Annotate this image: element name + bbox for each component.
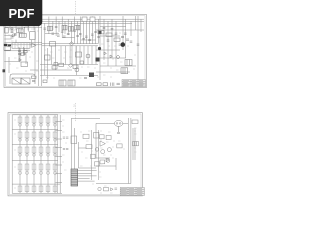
- filter box FB1: [4, 47, 11, 50]
- relay K2: [133, 142, 139, 146]
- wire grid column 1: [19, 115, 21, 194]
- title block page 1 text lines: [123, 81, 143, 86]
- wire vertical V33: [122, 16, 124, 50]
- resistor R2 hatch: [19, 29, 21, 33]
- sheet border page 2 outer: [8, 113, 142, 196]
- resistor R11: [106, 33, 112, 36]
- wire vertical V15: [80, 17, 82, 44]
- wire mid vertical M2: [59, 115, 61, 193]
- wire vertical V9: [61, 17, 63, 39]
- resistor R7: [59, 63, 64, 66]
- wire left block links: [5, 36, 39, 71]
- wire vertical V1: [38, 16, 40, 86]
- wire oval stub: [118, 126, 120, 132]
- capacitor C16: [55, 27, 58, 28]
- wire left block verticals: [9, 25, 32, 73]
- resistor bank RB4: [75, 25, 80, 30]
- wire right rail h2: [96, 49, 120, 51]
- transistor Q2: [75, 68, 79, 72]
- wire vertical V6: [52, 21, 54, 30]
- wire right rail h1: [96, 29, 144, 31]
- transistor Q4 dark: [98, 47, 101, 50]
- relay K4: [71, 136, 77, 144]
- op-amp U10: [100, 141, 105, 146]
- resistor R9: [45, 55, 51, 60]
- junction dot J: [24, 27, 25, 28]
- wire vertical V18: [89, 21, 91, 43]
- wire right vertical R3: [132, 128, 134, 160]
- wire vertical V13: [74, 17, 76, 44]
- wire vertical V34: [124, 19, 126, 58]
- capacitor C32: [97, 37, 100, 38]
- diode D5 diamond: [69, 63, 73, 67]
- resistor bank RB2 hatch: [64, 25, 66, 30]
- bridge rectifier D1 dark: [4, 44, 7, 46]
- resistor bank RB1 hatch: [49, 26, 51, 31]
- wire vertical V29: [103, 19, 105, 60]
- capacitor C37: [119, 44, 122, 45]
- capacitor C15: [44, 28, 47, 29]
- wire vertical V31: [111, 19, 113, 58]
- transistor Q8: [11, 28, 13, 30]
- resistor R30: [83, 134, 89, 138]
- transformer T1 winding A: [12, 78, 21, 84]
- IC U7 wide box: [12, 43, 30, 48]
- capacitor C39: [130, 41, 133, 42]
- wire vertical V3: [34, 27, 36, 75]
- title block page 2: [120, 188, 144, 196]
- transistor bank row 3: [18, 147, 57, 156]
- resistor bank RB4 hatch: [77, 25, 79, 30]
- sheet border page 1 outer: [4, 15, 147, 88]
- wire grid column 5: [47, 115, 49, 194]
- wire vertical V2: [41, 16, 43, 86]
- wire vertical V10: [64, 21, 66, 34]
- relay K3 pins: [123, 68, 125, 74]
- fold mark page 1 top: [75, 1, 77, 15]
- wire vertical V35: [130, 21, 132, 36]
- connector J1 pins: [61, 80, 63, 86]
- wire bottom return: [96, 183, 131, 185]
- capacitor C13: [121, 37, 124, 38]
- connector CN1: [82, 17, 87, 22]
- transistor bank row 1: [18, 117, 57, 126]
- wire vertical V21: [50, 46, 52, 65]
- resistor R13: [73, 65, 78, 69]
- capacitor C20: [63, 137, 65, 138]
- capacitor C9: [79, 34, 82, 35]
- capacitor C3: [18, 54, 21, 55]
- wire vertical V19: [92, 17, 94, 44]
- wire vertical W4: [83, 46, 85, 64]
- wire vertical V24: [65, 46, 67, 65]
- connector CN2: [90, 17, 95, 22]
- capacitor C1: [11, 31, 14, 32]
- capacitor C35: [111, 29, 114, 30]
- connector J2: [68, 80, 75, 86]
- transistor Q3 dark: [121, 42, 126, 47]
- loudspeaker LS1 oval: [114, 120, 122, 126]
- resistor bank RB3: [69, 27, 74, 32]
- capacitor C8: [63, 36, 66, 37]
- wire vertical V17: [86, 19, 88, 44]
- fold mark page 2 top: [75, 103, 77, 122]
- resistor R3: [20, 33, 27, 37]
- wire top bus 3: [20, 22, 132, 24]
- capacitor C11: [91, 34, 94, 35]
- transistor Q10: [101, 150, 105, 154]
- capacitor C5: [32, 81, 35, 82]
- resistor R12: [114, 38, 120, 41]
- transistor Q12: [106, 159, 110, 163]
- resistor R31: [86, 145, 92, 149]
- resistor R32: [91, 154, 95, 159]
- sheet border page 2 inner: [9, 114, 141, 195]
- wire vertical V23: [60, 46, 62, 64]
- wire right rail h5: [96, 71, 130, 73]
- capacitor C27: [76, 36, 79, 37]
- capacitor C22: [63, 149, 65, 150]
- wire grid column 2: [26, 115, 28, 194]
- wire loop left: [78, 142, 96, 168]
- resistor R25: [100, 160, 105, 164]
- wire mid rail B: [42, 45, 98, 47]
- transformer T1 diagonals: [12, 78, 30, 84]
- wire cluster link: [96, 158, 116, 166]
- regulator U6: [80, 61, 84, 64]
- wire mid rail C: [40, 64, 98, 66]
- capacitor C2: [11, 37, 14, 38]
- capacitor C29: [88, 40, 91, 41]
- component value labels texture page 1: [8, 27, 136, 78]
- capacitor C23: [66, 149, 68, 150]
- wire grid bus 5: [12, 183, 60, 185]
- wire vertical V7: [55, 17, 57, 37]
- bridge rectifier D2 dark: [8, 44, 11, 46]
- wire mid ticks: [56, 122, 63, 183]
- connector J1: [59, 80, 66, 86]
- capacitor C41: [137, 44, 140, 45]
- transistor Q11: [107, 148, 111, 152]
- transistor Q7 dark: [99, 31, 102, 34]
- IC U5: [76, 52, 82, 57]
- wire mid vertical M1: [56, 115, 58, 193]
- transistor bank row 5: [18, 186, 57, 192]
- wire right vertical R2: [130, 118, 132, 184]
- wire mid vertical M4: [74, 128, 76, 169]
- wire grid column 3: [33, 115, 35, 194]
- PDF badge: [0, 0, 42, 26]
- diode D10: [106, 158, 109, 162]
- output transistor grid cells: [18, 117, 57, 192]
- wire oval riser: [95, 123, 97, 158]
- wire connector fan-out: [78, 171, 97, 181]
- wire vertical W7: [95, 46, 97, 64]
- wire vertical V16: [83, 21, 85, 43]
- IC U1: [30, 32, 36, 40]
- diode D6: [104, 52, 106, 55]
- wire vertical V27: [46, 48, 48, 80]
- fuse F1 dark: [3, 69, 6, 72]
- plug P1: [111, 83, 114, 86]
- connector J2 pins: [70, 80, 72, 86]
- IC U2: [21, 62, 28, 67]
- wire grid bus 2: [12, 129, 58, 131]
- plug P2: [117, 83, 120, 84]
- capacitor C14: [126, 39, 129, 40]
- wire right rail h0: [100, 26, 126, 28]
- capacitor C18: [67, 34, 70, 35]
- transistor bank row 4: [18, 164, 57, 174]
- wire left rail C: [5, 50, 31, 52]
- wire right rail h0b: [100, 35, 120, 37]
- wire under-badge stubs: [10, 26, 34, 30]
- amplifier A1 triangle: [32, 43, 37, 47]
- capacitor C43: [14, 34, 17, 35]
- resistor bank RB3 hatch: [70, 27, 72, 32]
- capacitor C12: [84, 78, 87, 79]
- capacitor C38: [124, 33, 127, 34]
- regulator U4 dark: [89, 73, 94, 78]
- wire vertical V4: [44, 23, 46, 75]
- wire stub S1: [20, 48, 25, 62]
- wire vertical V36: [134, 16, 136, 30]
- wire vertical V26: [75, 46, 77, 76]
- wire right vertical R5: [91, 130, 93, 180]
- wire right rail h4: [100, 65, 136, 67]
- connector J3 body: [71, 169, 78, 186]
- resistor R5: [32, 76, 37, 78]
- resistor R2: [17, 29, 24, 33]
- wire vertical V22: [55, 46, 57, 70]
- wire vertical V37: [137, 16, 139, 85]
- wire link rail L1: [45, 33, 59, 35]
- wire vertical W1: [71, 46, 73, 64]
- relay K2 pins: [134, 142, 136, 146]
- wire mid vertical M3: [71, 118, 73, 169]
- wire vertical V12: [70, 21, 72, 43]
- wire vertical V28: [99, 16, 101, 80]
- wire oval feed right: [123, 122, 129, 124]
- wire grid bus top: [12, 114, 58, 116]
- wire top bus 2: [6, 20, 144, 22]
- wire vertical V11: [67, 19, 69, 35]
- connector J3 pins: [71, 171, 78, 184]
- resistor R16: [52, 66, 57, 69]
- wire mid rail E: [40, 74, 98, 76]
- wire vertical W6: [91, 46, 93, 64]
- transistor Q1: [12, 34, 15, 37]
- resistor R3 hatch: [22, 33, 24, 37]
- wire link rail L3: [81, 39, 96, 41]
- capacitor C24: [117, 133, 120, 134]
- diode D4 diamond: [69, 42, 73, 46]
- transformer T1 loop wire: [10, 74, 35, 84]
- wire vertical V25: [69, 46, 71, 63]
- wire grid column 6: [54, 115, 56, 194]
- resistor R6: [50, 42, 56, 47]
- wire vertical W2: [75, 46, 77, 64]
- capacitor C30: [94, 132, 99, 138]
- resistor R4: [21, 53, 24, 56]
- capacitor C21: [66, 137, 68, 138]
- fuse F3: [97, 83, 102, 86]
- wire vertical V8: [58, 21, 60, 32]
- resistor R26: [104, 188, 109, 191]
- resistor bank RB1: [48, 26, 53, 31]
- capacitor C7: [57, 35, 60, 36]
- diode D7: [110, 55, 112, 58]
- wire left vertical stub: [19, 47, 24, 62]
- transistor bank row 2: [18, 132, 57, 141]
- capacitor C28: [82, 39, 85, 40]
- wire grid bus 4: [12, 159, 58, 161]
- wire cluster drop: [115, 158, 117, 170]
- wire grid column 4: [40, 115, 42, 194]
- power transistor Q6 dark: [96, 58, 100, 62]
- wire oval feed left: [96, 122, 114, 124]
- diode D3: [19, 59, 21, 62]
- capacitor C36: [115, 33, 118, 34]
- relay K3: [121, 68, 128, 74]
- title block page 1: [122, 80, 146, 87]
- wire vertical V38: [140, 19, 142, 32]
- wire vertical W5: [87, 46, 89, 64]
- wire left rail B: [5, 44, 43, 46]
- wire vertical W3: [79, 46, 81, 64]
- resistor R24: [117, 144, 122, 148]
- relay K1 pins: [127, 60, 130, 66]
- capacitor C31: [94, 32, 97, 33]
- wire under-badge rail: [5, 27, 43, 29]
- wire vertical V20: [95, 21, 97, 43]
- capacitor C4: [23, 54, 26, 55]
- svg-text:PDF: PDF: [9, 6, 35, 21]
- capacitor C6: [52, 33, 55, 34]
- capacitor C33: [103, 28, 106, 29]
- transistor Q5: [86, 54, 90, 58]
- resistor R1: [5, 28, 8, 34]
- IC U7 pins: [15, 43, 27, 48]
- wire left rail A: [5, 42, 43, 44]
- resistor R22: [99, 135, 104, 139]
- relay K1: [125, 60, 132, 66]
- transistor Q13: [98, 187, 101, 190]
- wire vertical V32: [115, 21, 117, 66]
- transformer T1 winding B: [21, 78, 30, 84]
- wire top link: [72, 118, 101, 120]
- fuse F4: [103, 83, 108, 86]
- wire vertical V5: [48, 17, 50, 35]
- wire grid bus bottom: [12, 192, 62, 194]
- capacitor C26: [18, 51, 21, 52]
- capacitor C17: [61, 31, 64, 32]
- capacitor C25: [115, 188, 118, 189]
- resistor R33: [95, 162, 100, 166]
- wire vertical V20b: [98, 19, 100, 44]
- capacitor C34: [107, 40, 110, 41]
- fuse F2: [132, 120, 138, 124]
- wire loop stub: [78, 147, 86, 149]
- title block page 2 text lines: [121, 189, 142, 195]
- wire right vertical R1: [127, 118, 129, 184]
- wire vertical V14: [77, 21, 79, 43]
- wire link rail L2: [62, 37, 74, 39]
- wire left rail page2: [11, 115, 13, 193]
- wire right vertical R4: [134, 128, 136, 160]
- wire vertical V30: [107, 21, 109, 66]
- wire grid bus 3: [12, 144, 58, 146]
- resistor R15: [54, 63, 58, 66]
- wire right rail h3: [96, 57, 126, 59]
- wire mid rail A: [42, 43, 98, 45]
- diode D11: [111, 188, 114, 191]
- resistor R8: [43, 80, 47, 83]
- resistor R23: [106, 136, 111, 140]
- loudspeaker LS1 terminals: [116, 123, 118, 125]
- resistor bank RB2: [62, 25, 67, 30]
- diode D8 diamond: [116, 55, 120, 59]
- wire mid rail D: [40, 69, 72, 71]
- capacitor C19: [73, 30, 76, 31]
- sheet border page 1 inner: [5, 16, 145, 86]
- resistor R10: [98, 31, 104, 34]
- wire top bus 1: [6, 18, 144, 20]
- transistor Q14: [95, 148, 99, 152]
- resistor R14: [24, 50, 28, 52]
- capacitor C10: [85, 36, 88, 37]
- wire right vertical R6: [98, 130, 100, 180]
- component value labels texture page 2: [14, 120, 137, 193]
